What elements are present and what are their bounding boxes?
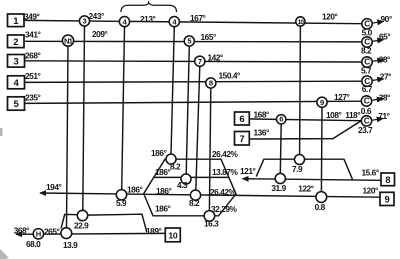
wire column from node 6 down to 31.9 [279, 124, 282, 173]
svg-text:0.6: 0.6 [361, 106, 372, 116]
hexagon interior row2 line [154, 176, 229, 178]
node circle N1 [62, 35, 73, 46]
capacitor circle C6 [361, 116, 371, 126]
wire column from first node 4 down to 5.9 [122, 27, 125, 190]
junction circle 4.3 hexagon row2 [181, 174, 191, 184]
svg-text:120°: 120° [322, 12, 337, 22]
bus box 4 [8, 76, 25, 89]
svg-text:150.4°: 150.4° [219, 71, 241, 81]
wire row4 bus4 to C4 [25, 81, 362, 82]
junction circle 8.2 hexagon row3 [190, 190, 200, 200]
svg-text:9: 9 [320, 98, 324, 107]
bus box 6 [235, 112, 250, 125]
svg-text:9: 9 [385, 194, 390, 205]
capacitor circle C1 [362, 19, 372, 29]
wire column from second node 4 down to hexagon 8.2 [171, 27, 174, 154]
svg-text:4.3: 4.3 [177, 180, 188, 190]
wire column from node 9 down to 0.8 [320, 107, 323, 191]
svg-text:32.29%: 32.29% [211, 204, 238, 214]
svg-text:15.6°: 15.6° [362, 168, 379, 178]
svg-text:71°: 71° [378, 111, 389, 121]
wire column from node 8 down to 16.3 [209, 88, 210, 210]
bus box 9 [380, 192, 394, 205]
svg-text:3: 3 [14, 56, 19, 67]
junction circle 5.9 [116, 190, 126, 200]
svg-text:165°: 165° [201, 32, 216, 42]
svg-text:6.7: 6.7 [362, 84, 373, 94]
bus box 7 [235, 132, 250, 146]
svg-text:31.9: 31.9 [271, 183, 286, 193]
svg-text:213°: 213° [140, 14, 155, 24]
harmonic source circle H [33, 229, 43, 239]
svg-text:108°: 108° [326, 110, 341, 120]
node circle 4 second [169, 17, 179, 27]
node circle 4 first [119, 17, 129, 27]
node circle 5 [184, 36, 194, 46]
svg-text:8.2: 8.2 [189, 198, 200, 208]
junction circle 0.8 [316, 192, 327, 203]
wire bus7 diagonal to C6 [249, 121, 361, 139]
wire from 22.9 right slanting down to bottom line [87, 214, 147, 232]
svg-text:168°: 168° [254, 110, 269, 120]
svg-text:122°: 122° [298, 184, 313, 194]
node circle 3 [79, 16, 89, 26]
junction circle 31.9 [275, 173, 285, 183]
svg-text:189°: 189° [146, 226, 161, 236]
svg-text:120°: 120° [363, 186, 378, 196]
svg-text:3: 3 [83, 17, 87, 26]
capacitor circle C2 [362, 37, 372, 47]
arrow from C6 [372, 119, 384, 121]
trapezoid outline [256, 159, 352, 180]
svg-text:7.9: 7.9 [292, 164, 303, 174]
junction circle 16.3 hexagon row4 [204, 211, 215, 222]
capacitor circle C3 [362, 57, 372, 67]
svg-text:186°: 186° [151, 148, 166, 158]
svg-text:8: 8 [209, 79, 213, 88]
svg-text:6: 6 [239, 114, 244, 125]
node circle 9 [317, 97, 327, 107]
svg-text:5.7: 5.7 [361, 66, 372, 76]
wire column from node 5 down to 4.3 [186, 46, 189, 174]
junction circle 22.9 [77, 210, 87, 220]
svg-text:5.0: 5.0 [362, 28, 373, 38]
bus box 8 [381, 173, 395, 186]
svg-text:6: 6 [279, 115, 283, 124]
junction circle 8.2 hexagon row1 [166, 154, 176, 164]
svg-text:142°: 142° [208, 52, 223, 62]
wire long 194deg line through hexagon to bus9 [40, 193, 380, 197]
svg-text:349°: 349° [24, 12, 39, 22]
wire column from node 3 down to 22.9 [83, 26, 85, 210]
capacitor circle C4 [362, 76, 372, 86]
svg-text:7: 7 [239, 134, 244, 145]
svg-text:186°: 186° [156, 186, 171, 196]
junction circle 13.9 [61, 228, 72, 239]
wire bottom 368deg line H to bus10 [16, 232, 165, 235]
svg-text:27°: 27° [380, 72, 391, 82]
svg-text:68.0: 68.0 [26, 239, 41, 249]
junction circle 7.9 trapezoid [295, 155, 305, 165]
node circle 10 top right [296, 17, 305, 26]
arrow from C3 [372, 60, 384, 62]
svg-text:10: 10 [168, 231, 177, 241]
svg-text:265°: 265° [44, 227, 59, 237]
arrow from C1 [372, 21, 384, 23]
wire row2 bus2 to C2 [24, 40, 362, 43]
arrow from C2 [372, 40, 384, 42]
arrow from C5 [372, 99, 384, 101]
svg-text:5.9: 5.9 [116, 198, 127, 208]
wire column from node N1 down to 13.9 [67, 46, 69, 227]
svg-text:268°: 268° [25, 51, 40, 61]
svg-text:0.8: 0.8 [315, 202, 326, 212]
wire row5 bus5 to C5 [25, 101, 361, 103]
svg-text:38°: 38° [379, 55, 390, 65]
svg-text:8.2: 8.2 [170, 162, 181, 172]
svg-text:H: H [36, 230, 41, 239]
bus box 3 [8, 55, 25, 68]
svg-text:38°: 38° [379, 93, 390, 103]
hexagon outline [144, 159, 236, 216]
bus box 10 [165, 228, 180, 242]
svg-text:13.9: 13.9 [63, 240, 78, 250]
svg-text:118°: 118° [345, 110, 360, 120]
svg-text:65°: 65° [379, 31, 390, 41]
brace over nodes 4 and 4 [121, 3, 177, 12]
wire stub left of 22.9 to 13.9 [61, 214, 78, 228]
bus box 1 [8, 14, 25, 27]
svg-text:136°: 136° [254, 128, 269, 138]
svg-text:26.42%: 26.42% [212, 149, 239, 159]
wire row1 bus1 to C1 [24, 20, 362, 23]
arrow from C4 [372, 79, 384, 81]
svg-text:127°: 127° [334, 92, 349, 102]
svg-text:C: C [364, 97, 370, 106]
svg-text:186°: 186° [127, 185, 142, 195]
svg-text:22.9: 22.9 [74, 221, 89, 231]
svg-text:121°: 121° [240, 166, 255, 176]
scan smudge bottom left corner [0, 249, 9, 259]
wire column from node 7 down to lower 8.2 [196, 66, 200, 190]
svg-text:209°: 209° [92, 29, 107, 39]
capacitor circle C5 [361, 96, 371, 106]
wire 121deg arrow line to bus8 [243, 179, 382, 181]
svg-text:368°: 368° [14, 225, 29, 235]
bus box 5 [8, 97, 25, 110]
node circle 6 [277, 115, 286, 124]
node circle 7 [195, 56, 205, 66]
svg-text:235°: 235° [25, 93, 40, 103]
svg-text:16.3: 16.3 [204, 219, 219, 229]
svg-text:194°: 194° [46, 182, 61, 192]
svg-text:13.87%: 13.87% [212, 167, 239, 177]
bus box 2 [8, 35, 25, 48]
svg-text:167°: 167° [190, 13, 205, 23]
scan smudge left edge [0, 128, 3, 136]
svg-text:243°: 243° [89, 11, 104, 21]
svg-text:251°: 251° [25, 71, 40, 81]
wire column from node 10 down to 7.9 [299, 26, 302, 155]
svg-text:23.7: 23.7 [358, 125, 373, 135]
svg-text:186°: 186° [155, 204, 170, 214]
svg-text:341°: 341° [25, 30, 40, 40]
svg-text:2: 2 [13, 37, 18, 48]
svg-text:90°: 90° [381, 14, 392, 24]
svg-text:8.2: 8.2 [361, 46, 372, 56]
wire row3 bus3 to C3 [25, 61, 362, 62]
wire row6 bus6 to C6 [249, 119, 361, 121]
node circle 8 [206, 78, 216, 88]
svg-text:26.42%: 26.42% [210, 187, 237, 197]
svg-text:7: 7 [198, 57, 202, 66]
svg-text:8: 8 [385, 175, 390, 186]
svg-text:186°: 186° [155, 167, 170, 177]
